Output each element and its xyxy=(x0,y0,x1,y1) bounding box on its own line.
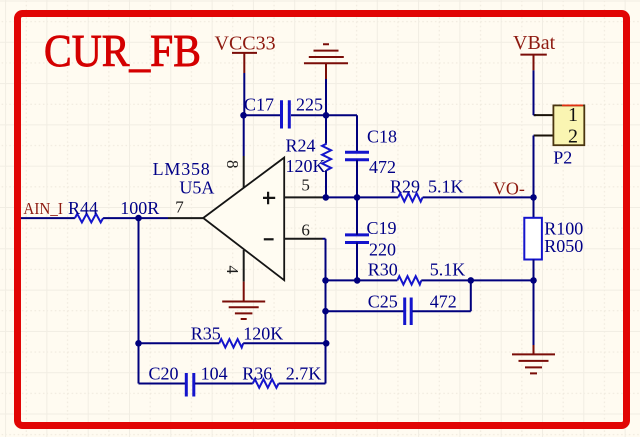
wire R30 right xyxy=(421,279,533,281)
capacitor C18 xyxy=(345,127,397,178)
wire pin2 to VO- xyxy=(534,136,537,198)
node VO- xyxy=(530,194,537,201)
node AIN/feedback xyxy=(135,215,142,222)
wire R44 to pin7 xyxy=(103,217,168,219)
resistor R35 xyxy=(191,324,284,348)
resistor R24 xyxy=(286,136,332,177)
wire R100 bottom xyxy=(533,260,535,281)
svg-text:R29: R29 xyxy=(390,176,420,196)
svg-text:R35: R35 xyxy=(191,324,221,344)
svg-text:4: 4 xyxy=(223,265,242,274)
svg-text:2: 2 xyxy=(568,125,578,147)
ground (top, inverted) xyxy=(304,44,348,79)
op-amp pin 5 xyxy=(284,196,322,198)
svg-text:472: 472 xyxy=(430,292,457,312)
svg-text:R24: R24 xyxy=(286,136,316,156)
wire pin5 net xyxy=(323,196,399,198)
svg-text:C19: C19 xyxy=(367,218,397,238)
connector P2 xyxy=(534,104,584,168)
node R30/R100 xyxy=(530,277,537,284)
op-amp U5A triangle xyxy=(203,158,284,281)
resistor R36 xyxy=(242,364,321,388)
svg-text:CUR_FB: CUR_FB xyxy=(44,25,201,76)
op-amp pin 7 xyxy=(168,217,203,219)
svg-text:C18: C18 xyxy=(367,127,397,147)
svg-text:6: 6 xyxy=(301,220,310,239)
wire to bottom-right ground xyxy=(533,280,535,345)
resistor R100 xyxy=(524,218,583,260)
svg-text:8: 8 xyxy=(223,160,242,169)
resistor R44 xyxy=(68,198,159,223)
resistor R30 xyxy=(368,259,465,284)
wire C25 right xyxy=(412,280,470,311)
svg-text:7: 7 xyxy=(175,198,184,217)
capacitor C19 xyxy=(345,218,397,259)
svg-text:LM358: LM358 xyxy=(153,159,211,179)
svg-text:C20: C20 xyxy=(149,364,179,384)
svg-text:220: 220 xyxy=(369,239,396,259)
node R35 left xyxy=(135,340,142,347)
svg-text:104: 104 xyxy=(201,364,228,384)
wire left feedback vertical xyxy=(138,218,140,383)
svg-text:C25: C25 xyxy=(368,292,398,312)
wire bottom left xyxy=(139,383,186,385)
svg-text:2.7K: 2.7K xyxy=(286,364,322,384)
node C19/R30 xyxy=(354,277,361,284)
wire C18 branch top xyxy=(326,115,357,152)
wire VCC33 stem xyxy=(243,73,245,115)
wire R29 to VO- xyxy=(423,196,534,198)
node pin6/C25 xyxy=(322,308,329,315)
capacitor C20 xyxy=(149,364,228,397)
wire VBat stem xyxy=(534,70,537,115)
svg-text:VO-: VO- xyxy=(493,178,525,198)
wire R35 right xyxy=(243,342,326,344)
wire C19 top xyxy=(356,197,358,235)
node pin6/R30 xyxy=(322,277,329,284)
op-amp pin 4 xyxy=(243,250,245,282)
power port VCC33 xyxy=(215,33,276,74)
wire R36 right xyxy=(279,383,326,385)
svg-text:C17: C17 xyxy=(244,95,274,115)
wire C25 left xyxy=(326,310,404,312)
node R30/C25 xyxy=(468,277,475,284)
wire C19 bottom xyxy=(356,243,358,281)
op-amp pin 8 xyxy=(243,156,245,189)
svg-text:U5A: U5A xyxy=(179,178,214,198)
op-amp plus input mark xyxy=(263,192,275,204)
svg-text:AIN_I: AIN_I xyxy=(23,199,63,218)
svg-text:VBat: VBat xyxy=(513,32,556,54)
svg-text:100R: 100R xyxy=(120,198,159,218)
node pin5/R24 xyxy=(323,194,330,201)
wire top ground stem xyxy=(325,79,327,115)
svg-text:120K: 120K xyxy=(286,156,326,176)
node pin5/C18 xyxy=(354,194,361,201)
svg-text:R44: R44 xyxy=(68,198,98,218)
wire R24 bottom xyxy=(325,170,327,197)
svg-text:VCC33: VCC33 xyxy=(215,33,276,55)
capacitor C17 xyxy=(244,95,323,129)
svg-text:120K: 120K xyxy=(243,324,283,344)
wire R35 left xyxy=(139,342,220,344)
wire C17 net left xyxy=(244,114,281,116)
node C17/gnd xyxy=(323,112,330,119)
wire R30 net xyxy=(326,279,398,281)
svg-text:R36: R36 xyxy=(242,364,272,384)
power port VBat xyxy=(513,32,556,71)
wire C20 to R36 xyxy=(195,383,253,385)
wire AIN left xyxy=(21,217,75,219)
svg-text:5: 5 xyxy=(301,176,310,195)
svg-text:5.1K: 5.1K xyxy=(428,176,464,196)
svg-text:225: 225 xyxy=(296,95,323,115)
svg-text:5.1K: 5.1K xyxy=(430,259,466,279)
wire VO- to R100 xyxy=(533,197,535,217)
wire C17 net right xyxy=(291,114,326,116)
svg-text:R30: R30 xyxy=(368,259,398,279)
resistor R29 xyxy=(390,176,464,201)
node R35 right xyxy=(323,340,330,347)
wire pin8 upper xyxy=(243,115,245,156)
node VCC/C17 xyxy=(240,112,247,119)
svg-text:P2: P2 xyxy=(553,148,572,168)
ground (middle) xyxy=(222,282,265,319)
wire C18 bottom xyxy=(356,160,358,198)
capacitor C25 xyxy=(368,292,457,325)
ground (bottom right) xyxy=(512,345,555,373)
svg-text:R050: R050 xyxy=(544,236,583,256)
svg-text:1: 1 xyxy=(568,104,578,126)
wire pin6 xyxy=(323,239,326,384)
wire R24 top xyxy=(325,115,327,143)
svg-text:472: 472 xyxy=(369,157,396,177)
op-amp pin 6 xyxy=(284,238,322,240)
op-amp minus input mark xyxy=(264,238,274,240)
